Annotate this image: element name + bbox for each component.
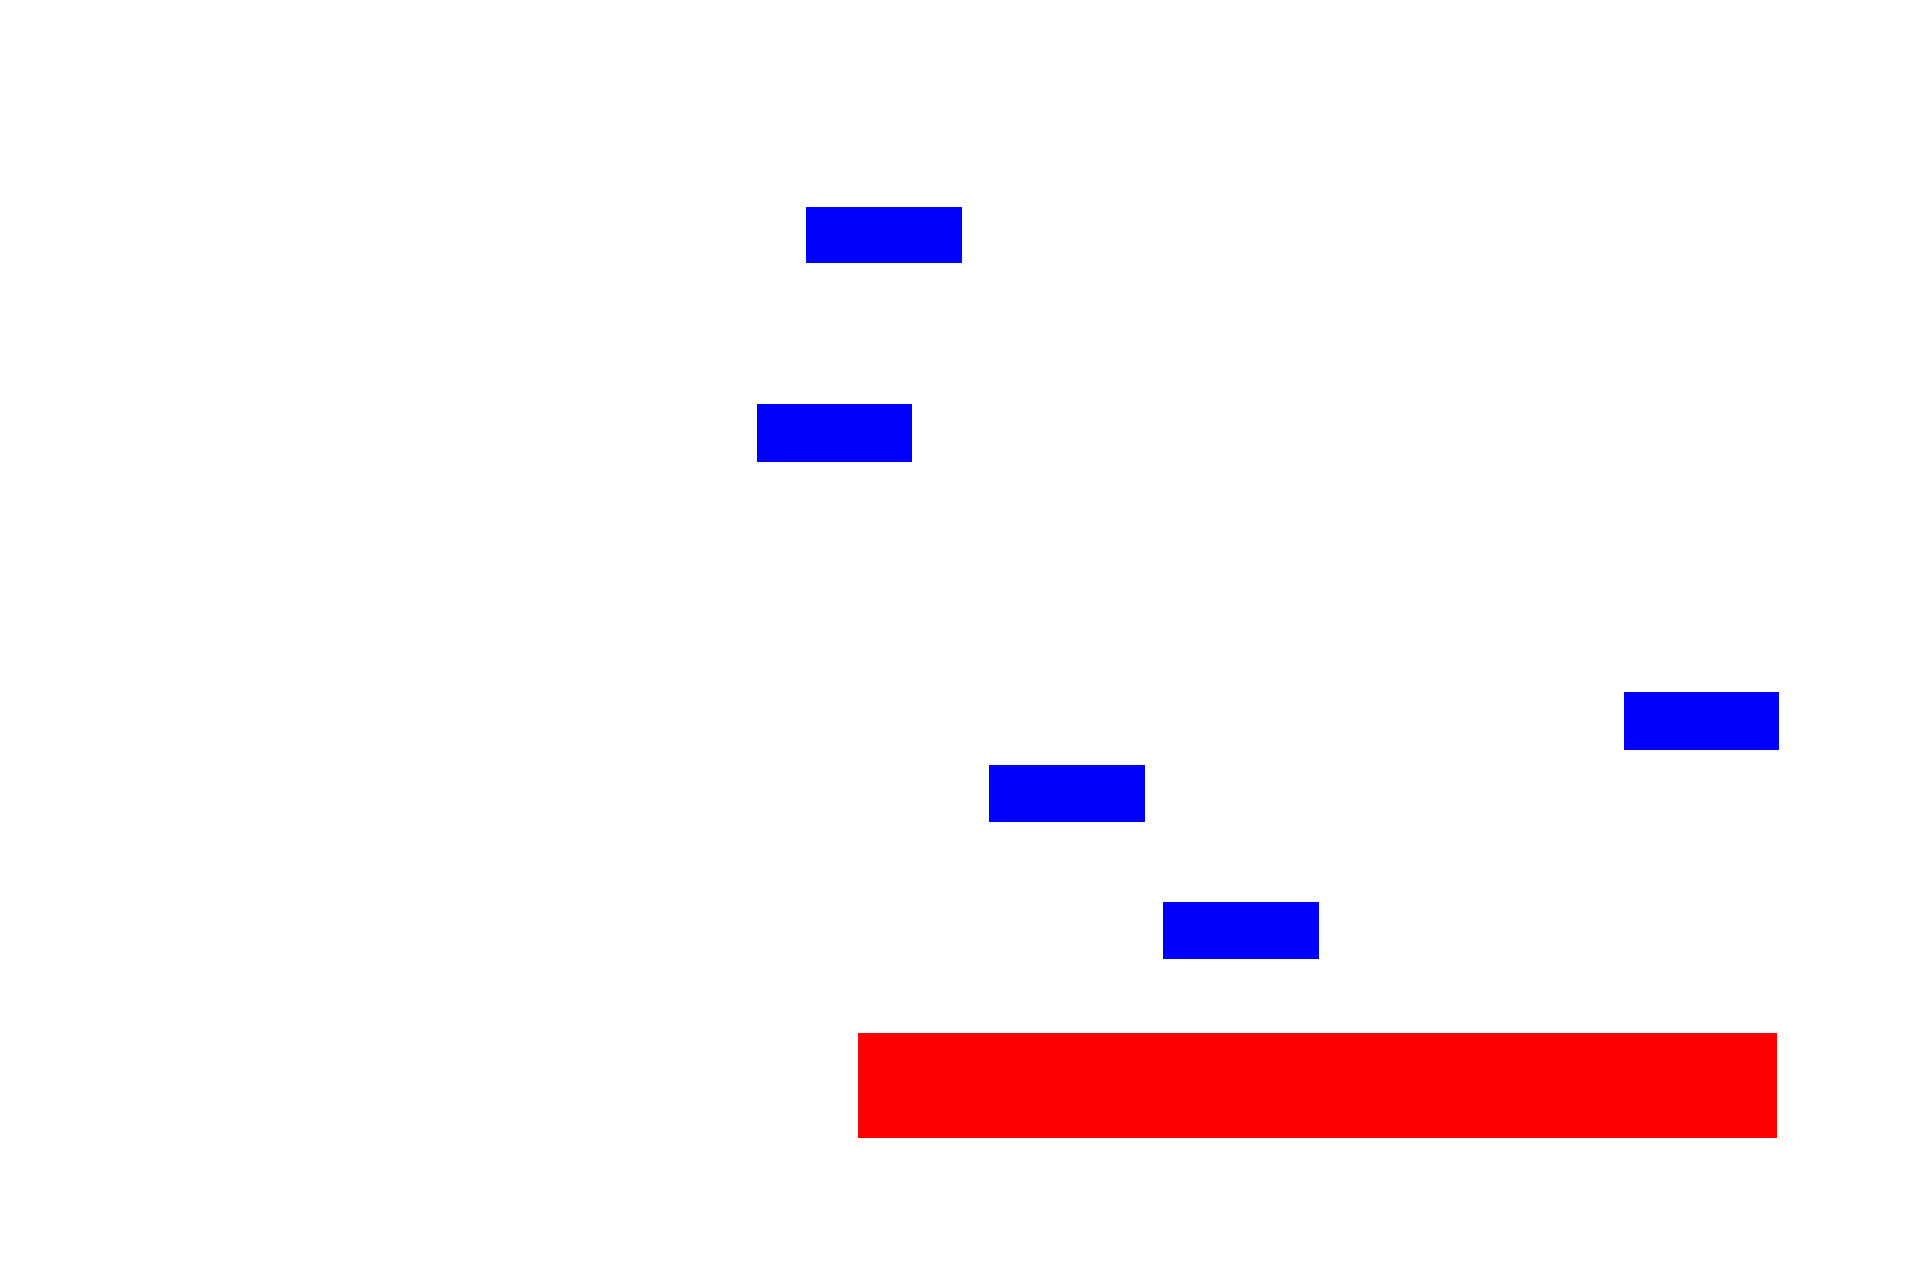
- blue block 2: [757, 404, 912, 462]
- blue block 4 (middle): [989, 765, 1145, 822]
- blue block 5: [1163, 902, 1319, 959]
- red block (bottom bar): [858, 1033, 1777, 1138]
- blue block 3 (right): [1624, 692, 1779, 750]
- blue block 1 (top): [806, 207, 962, 263]
